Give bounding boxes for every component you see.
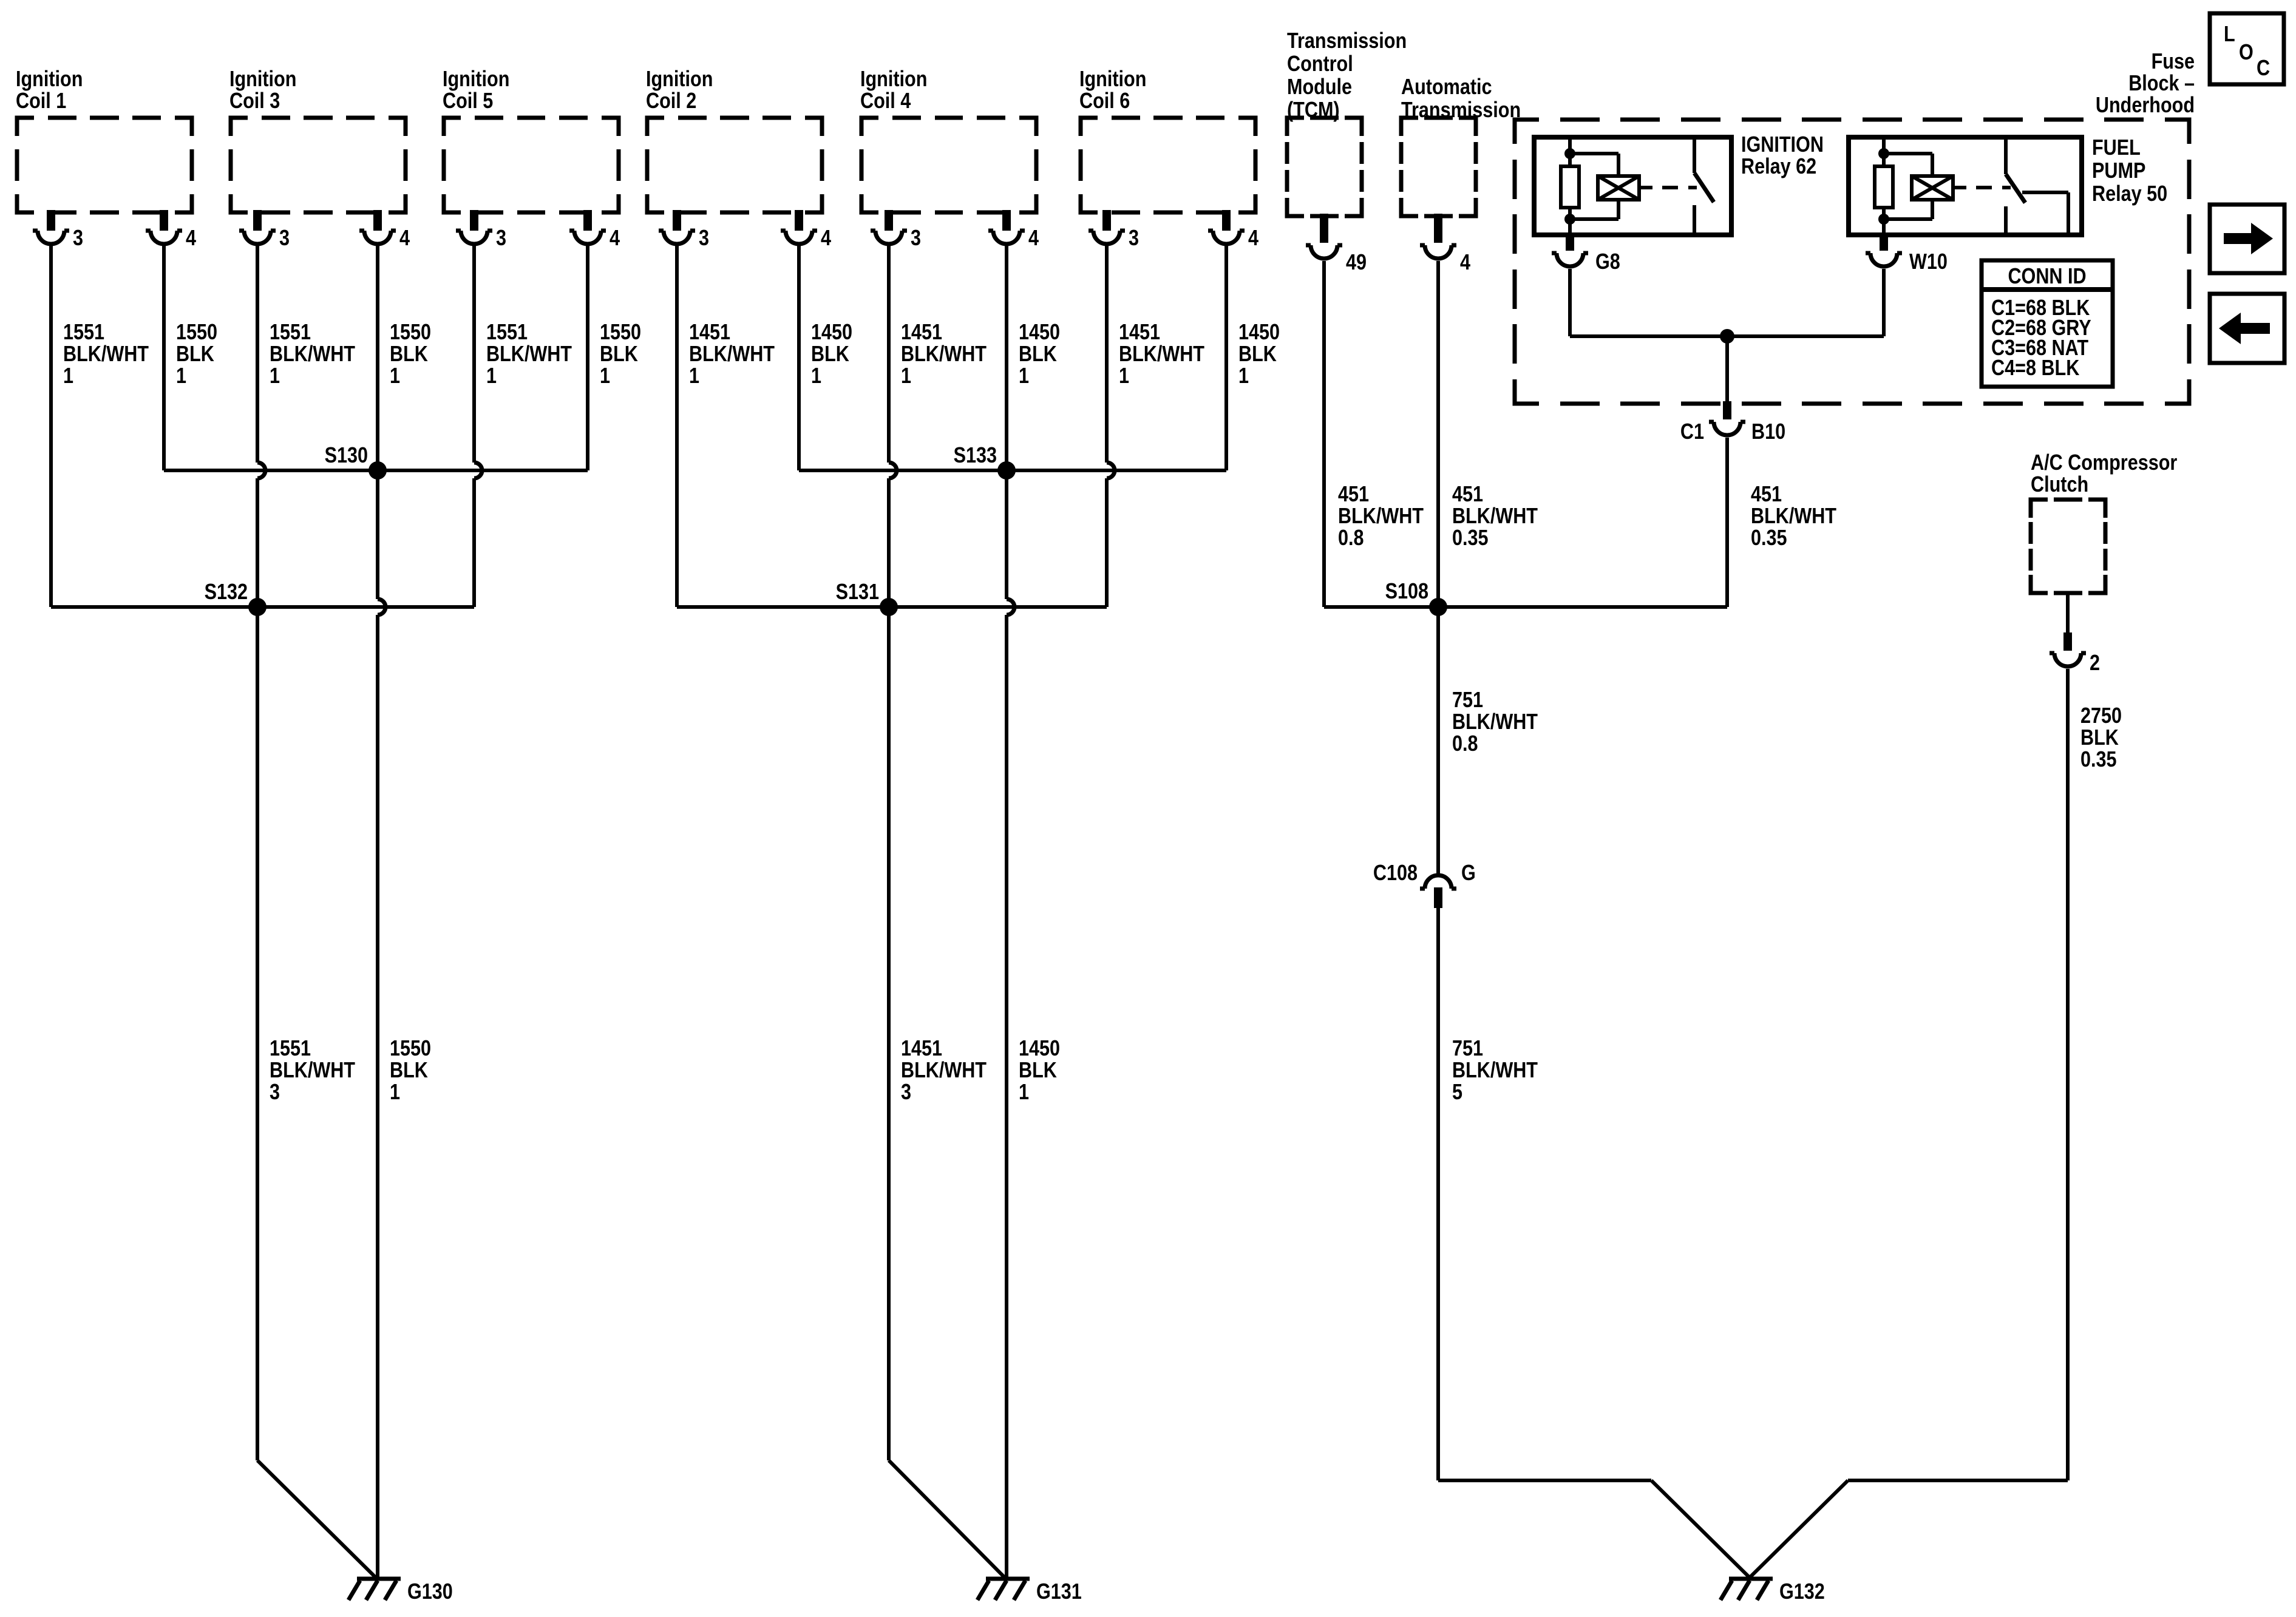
transmission control module (TCM) [1287, 29, 1407, 216]
svg-text:C108: C108 [1373, 861, 1418, 886]
svg-text:1: 1 [270, 364, 280, 388]
ignition coil 2 [646, 67, 822, 212]
LOC legend box [2210, 13, 2284, 84]
svg-text:751: 751 [1452, 1037, 1483, 1061]
ground G132 [1720, 1579, 1825, 1604]
svg-text:1: 1 [1019, 364, 1029, 388]
wire label 1550 BLK 1 at x=968 [600, 320, 641, 388]
wire 1450 BLK from S133 down crossing S131 (hop) [1007, 470, 1014, 1579]
wire S131 row (1451 BLK/WHT splice line) [677, 605, 1107, 609]
svg-text:1551: 1551 [270, 320, 311, 345]
wire label 1450 BLK 1 at x=1316 [811, 320, 852, 388]
svg-text:BLK: BLK [1019, 342, 1057, 367]
ignition coil 4 [860, 67, 1036, 212]
wire label 1550 BLK 1 at x=270 [176, 320, 217, 388]
ignition coil 1 [16, 67, 192, 212]
svg-text:Coil 3: Coil 3 [229, 89, 280, 114]
svg-text:3: 3 [911, 226, 921, 251]
svg-text:1550: 1550 [390, 1037, 431, 1061]
svg-text:IGNITION: IGNITION [1741, 133, 1824, 157]
svg-text:S132: S132 [205, 580, 248, 605]
wire label 1551 BLK/WHT 1 at x=84 [63, 320, 149, 388]
wire 451 BLK/WHT from transmission pin 4 to S108 [1436, 261, 1440, 607]
coil 4 pin 4 [988, 210, 1039, 251]
svg-text:Coil 1: Coil 1 [16, 89, 66, 114]
svg-text:1550: 1550 [176, 320, 217, 345]
wire coil6 pin3 down crossing S133 (hop) [1107, 245, 1115, 607]
fuse block - underhood dashed box [1515, 50, 2195, 404]
svg-text:Block –: Block – [2128, 72, 2195, 96]
svg-text:Coil 4: Coil 4 [860, 89, 911, 114]
svg-text:2750: 2750 [2080, 704, 2122, 728]
svg-text:Ignition: Ignition [646, 67, 713, 92]
coil 5 pin 3 [456, 210, 506, 251]
wire label 1551 BLK/WHT 1 at x=781 [486, 320, 572, 388]
svg-text:BLK/WHT: BLK/WHT [486, 342, 572, 367]
svg-text:Ignition: Ignition [1079, 67, 1146, 92]
svg-text:S133: S133 [954, 444, 997, 468]
svg-text:1450: 1450 [1238, 320, 1280, 345]
CONN ID table [1982, 260, 2113, 387]
svg-text:0.35: 0.35 [1751, 526, 1787, 551]
svg-text:1: 1 [486, 364, 497, 388]
svg-text:1: 1 [390, 1080, 400, 1105]
splice S133 [954, 444, 1016, 480]
wire from a/c clutch to pin 2 [2066, 593, 2070, 635]
svg-text:Control: Control [1287, 52, 1353, 76]
svg-text:1550: 1550 [390, 320, 431, 345]
wire 1550 BLK from S130 down crossing S132 (hop) [378, 470, 385, 1579]
ground G131 [977, 1579, 1082, 1604]
svg-text:4: 4 [610, 226, 620, 251]
ground G130 [348, 1579, 453, 1604]
wire coil4 pin4 down to splice S133 [1005, 245, 1008, 470]
wire label 1450 BLK 1 at x=1658 [1019, 320, 1060, 388]
svg-text:1: 1 [811, 364, 821, 388]
svg-text:S131: S131 [836, 580, 879, 605]
wire coil5 pin3 down crossing S130 (hop) [474, 245, 482, 607]
svg-text:0.8: 0.8 [1338, 526, 1364, 551]
svg-text:BLK/WHT: BLK/WHT [689, 342, 775, 367]
svg-text:BLK/WHT: BLK/WHT [63, 342, 149, 367]
svg-text:1: 1 [390, 364, 400, 388]
svg-text:FUEL: FUEL [2092, 136, 2141, 160]
wire coil3 pin3 down crossing S130 (hop) [257, 245, 265, 607]
automatic transmission [1401, 75, 1521, 216]
coil 6 pin 3 [1089, 210, 1139, 251]
svg-text:BLK/WHT: BLK/WHT [1452, 710, 1538, 734]
fuel pump relay pin W10 [1866, 232, 1948, 274]
svg-text:PUMP: PUMP [2092, 159, 2145, 183]
fuel pump relay 50 [1849, 136, 2167, 235]
svg-text:CONN ID: CONN ID [2008, 265, 2086, 289]
svg-text:Ignition: Ignition [229, 67, 296, 92]
coil 3 pin 3 [239, 210, 290, 251]
svg-text:Transmission: Transmission [1401, 98, 1521, 123]
svg-text:Clutch: Clutch [2031, 473, 2088, 497]
svg-text:1: 1 [1119, 364, 1129, 388]
svg-text:1451: 1451 [689, 320, 730, 345]
svg-text:1450: 1450 [811, 320, 852, 345]
wire label 1450 BLK 1 at x=2020 [1238, 320, 1280, 388]
splice S131 [836, 580, 898, 616]
svg-text:C1: C1 [1680, 420, 1704, 444]
svg-text:Ignition: Ignition [16, 67, 83, 92]
svg-text:C: C [2257, 56, 2270, 81]
svg-text:BLK: BLK [390, 1059, 428, 1083]
svg-text:BLK/WHT: BLK/WHT [901, 1059, 987, 1083]
wire 1451 BLK/WHT from S131 down to G131 [889, 607, 1005, 1578]
svg-text:O: O [2239, 41, 2254, 65]
ignition coil 5 [443, 67, 619, 212]
ignition coil 3 [229, 67, 406, 212]
svg-text:BLK/WHT: BLK/WHT [1338, 504, 1424, 529]
svg-text:C4=8 BLK: C4=8 BLK [1991, 356, 2079, 381]
wire S130 row (1550 BLK splice line) [164, 469, 588, 472]
svg-text:A/C Compressor: A/C Compressor [2031, 451, 2177, 475]
wire coil5 pin4 down to S130 row end [586, 245, 589, 470]
coil 2 pin 4 [781, 210, 831, 251]
svg-text:3: 3 [496, 226, 506, 251]
svg-text:G131: G131 [1036, 1580, 1082, 1604]
svg-text:Ignition: Ignition [860, 67, 927, 92]
wire label 1450 BLK 1 (long) [1019, 1037, 1060, 1105]
wire label 451 BLK/WHT 0.8 (TCM) [1338, 483, 1424, 551]
wire label 451 BLK/WHT 0.35 (B10) [1751, 483, 1837, 551]
wire label 1551 BLK/WHT 1 at x=424 [270, 320, 356, 388]
wire label 1451 BLK/WHT 3 [901, 1037, 987, 1105]
svg-text:4: 4 [1460, 251, 1470, 275]
svg-text:Relay 50: Relay 50 [2092, 182, 2167, 206]
svg-text:BLK/WHT: BLK/WHT [1119, 342, 1205, 367]
svg-text:S108: S108 [1385, 580, 1428, 604]
automatic transmission pin 4 [1420, 214, 1470, 275]
svg-text:BLK: BLK [1238, 342, 1277, 367]
svg-text:5: 5 [1452, 1080, 1462, 1105]
connector C1 pin B10 [1680, 401, 1785, 444]
wire 451 BLK/WHT from TCM pin 49 to S108 row [1322, 261, 1326, 607]
inline connector C108 pin G [1373, 861, 1476, 908]
svg-text:BLK: BLK [1019, 1059, 1057, 1083]
svg-text:G8: G8 [1595, 250, 1620, 274]
wire coil2 pin3 down to S131 row [675, 245, 679, 607]
coil 5 pin 4 [569, 210, 620, 251]
splice S108 [1385, 580, 1447, 616]
wire from W10 down and left [1727, 269, 1884, 336]
svg-text:BLK: BLK [811, 342, 849, 367]
TCM pin 49 [1306, 214, 1367, 275]
svg-text:451: 451 [1452, 483, 1483, 507]
svg-text:1: 1 [600, 364, 610, 388]
svg-text:BLK/WHT: BLK/WHT [270, 342, 356, 367]
svg-text:BLK: BLK [176, 342, 214, 367]
wire 751 BLK/WHT from S108 down to C108 [1436, 607, 1440, 876]
coil 2 pin 3 [659, 210, 709, 251]
splice S132 [205, 580, 267, 616]
svg-text:0.35: 0.35 [1452, 526, 1489, 551]
junction of relay ground wires [1720, 329, 1734, 344]
svg-text:451: 451 [1338, 483, 1369, 507]
svg-text:1: 1 [1238, 364, 1249, 388]
svg-text:751: 751 [1452, 688, 1483, 713]
svg-text:Coil 2: Coil 2 [646, 89, 696, 114]
svg-text:BLK/WHT: BLK/WHT [901, 342, 987, 367]
wire label 2750 BLK 0.35 [2080, 704, 2122, 772]
svg-text:W10: W10 [1909, 250, 1948, 274]
svg-text:1: 1 [689, 364, 699, 388]
wire label 1451 BLK/WHT 1 at x=1464 [901, 320, 987, 388]
wire label 751 BLK/WHT 5 [1452, 1037, 1538, 1105]
ignition coil 6 [1079, 67, 1255, 212]
svg-text:0.8: 0.8 [1452, 732, 1478, 756]
svg-text:49: 49 [1346, 251, 1367, 275]
wire coil3 pin4 down to splice S130 [376, 245, 379, 470]
svg-text:B10: B10 [1751, 420, 1785, 444]
svg-text:Coil 5: Coil 5 [443, 89, 493, 114]
wire label 1550 BLK 1 at x=622 [390, 320, 431, 388]
svg-text:1450: 1450 [1019, 320, 1060, 345]
ignition relay 62 [1534, 133, 1824, 235]
coil 6 pin 4 [1208, 210, 1258, 251]
svg-text:451: 451 [1751, 483, 1782, 507]
wire label 451 BLK/WHT 0.35 (transmission) [1452, 483, 1538, 551]
wire coil2 pin4 down to S133 row [797, 245, 801, 470]
coil 4 pin 3 [871, 210, 921, 251]
svg-text:S130: S130 [325, 444, 368, 468]
svg-text:3: 3 [279, 226, 290, 251]
svg-text:3: 3 [1129, 226, 1139, 251]
wire S132 row (1551 BLK/WHT splice line) [51, 605, 474, 609]
svg-text:G132: G132 [1779, 1580, 1825, 1604]
coil 1 pin 4 [146, 210, 196, 251]
svg-text:3: 3 [699, 226, 709, 251]
svg-text:4: 4 [1248, 226, 1258, 251]
svg-text:BLK: BLK [390, 342, 428, 367]
svg-text:1: 1 [1019, 1080, 1029, 1105]
svg-text:Transmission: Transmission [1287, 29, 1407, 53]
svg-text:3: 3 [73, 226, 83, 251]
svg-text:1551: 1551 [63, 320, 104, 345]
svg-text:1550: 1550 [600, 320, 641, 345]
wire coil1 pin3 down to S132 row [49, 245, 53, 607]
svg-text:4: 4 [399, 226, 410, 251]
wire label 1451 BLK/WHT 1 at x=1115 [689, 320, 775, 388]
svg-text:1451: 1451 [1119, 320, 1160, 345]
coil 1 pin 3 [33, 210, 83, 251]
svg-text:Underhood: Underhood [2096, 93, 2195, 118]
svg-text:(TCM): (TCM) [1287, 98, 1340, 123]
svg-text:G130: G130 [407, 1580, 453, 1604]
svg-text:4: 4 [821, 226, 831, 251]
svg-text:G: G [1461, 861, 1476, 886]
svg-text:1450: 1450 [1019, 1037, 1060, 1061]
wire label 1550 BLK 1 (long) [390, 1037, 431, 1105]
svg-text:0.35: 0.35 [2080, 748, 2117, 772]
svg-text:1551: 1551 [486, 320, 528, 345]
svg-text:Relay 62: Relay 62 [1741, 155, 1816, 179]
off-page arrow left [2210, 294, 2284, 363]
wire 751 BLK/WHT from C108 to G132 [1438, 908, 1750, 1578]
wire 451 BLK/WHT from B10 to S108 row [1725, 438, 1729, 607]
wire label 1451 BLK/WHT 1 at x=1823 [1119, 320, 1205, 388]
wire S108 row [1324, 605, 1727, 609]
svg-text:L: L [2224, 22, 2235, 47]
wire from G8 down and right [1570, 269, 1727, 336]
svg-text:1451: 1451 [901, 1037, 942, 1061]
svg-text:1: 1 [176, 364, 186, 388]
svg-text:BLK/WHT: BLK/WHT [1452, 1059, 1538, 1083]
a/c compressor clutch [2031, 451, 2177, 593]
coil 3 pin 4 [359, 210, 410, 251]
wire S133 row (1450 BLK splice line) [799, 469, 1226, 472]
svg-text:Fuse: Fuse [2152, 50, 2195, 74]
svg-text:4: 4 [1028, 226, 1039, 251]
splice S130 [325, 444, 387, 480]
wire coil1 pin4 down to S130 row [162, 245, 166, 470]
svg-text:1551: 1551 [270, 1037, 311, 1061]
svg-text:Automatic: Automatic [1401, 75, 1492, 100]
svg-text:BLK: BLK [2080, 726, 2119, 750]
svg-text:4: 4 [186, 226, 196, 251]
svg-text:BLK/WHT: BLK/WHT [1751, 504, 1837, 529]
wire label 751 BLK/WHT 0.8 [1452, 688, 1538, 756]
svg-text:3: 3 [270, 1080, 280, 1105]
wire 2750 BLK from pin 2 to G132 [1749, 669, 2068, 1578]
wire label 1551 BLK/WHT 3 [270, 1037, 356, 1105]
svg-text:Ignition: Ignition [443, 67, 509, 92]
wire coil6 pin4 down to S133 row end [1224, 245, 1228, 470]
wire coil4 pin3 down crossing S133 (hop) [889, 245, 897, 607]
off-page arrow right [2210, 205, 2284, 273]
wire 1551 BLK/WHT from S132 down to G130 [257, 607, 376, 1578]
svg-text:1: 1 [901, 364, 911, 388]
svg-text:Module: Module [1287, 75, 1352, 100]
wire from junction down to connector C1 [1725, 336, 1729, 401]
svg-text:3: 3 [901, 1080, 911, 1105]
svg-text:BLK: BLK [600, 342, 638, 367]
svg-text:Coil 6: Coil 6 [1079, 89, 1130, 114]
svg-text:BLK/WHT: BLK/WHT [1452, 504, 1538, 529]
a/c clutch pin 2 [2050, 632, 2100, 676]
ignition relay pin G8 [1552, 232, 1620, 274]
svg-text:2: 2 [2090, 651, 2100, 676]
svg-text:1: 1 [63, 364, 73, 388]
svg-text:1451: 1451 [901, 320, 942, 345]
svg-text:BLK/WHT: BLK/WHT [270, 1059, 356, 1083]
